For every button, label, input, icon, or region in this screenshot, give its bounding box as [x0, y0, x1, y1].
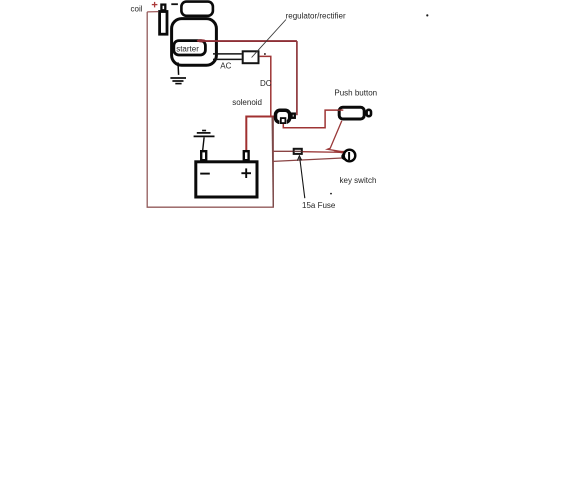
wire to fuse: [273, 150, 293, 152]
regulator/rectifier box: [243, 51, 259, 63]
engine body: [172, 19, 217, 66]
coil L1: [160, 5, 167, 35]
coil polarity +: [152, 2, 158, 8]
wire bottom rail to key switch (diagonal): [273, 158, 345, 162]
fuse pointer arrow: [297, 156, 304, 198]
svg-text:DC: DC: [260, 79, 272, 88]
coil polarity -: [171, 3, 178, 5]
fuel tank: [181, 2, 213, 16]
wire regulator rail down to solenoid tab: [296, 41, 298, 115]
svg-text:Push button: Push button: [334, 88, 377, 97]
wire coil to left rail: [147, 11, 158, 13]
DC plus terminal dot: [264, 53, 266, 55]
key switch S2: [342, 150, 355, 162]
wire AC 1: [213, 53, 242, 55]
battery: [196, 151, 257, 197]
battery ground: [194, 131, 215, 151]
wire AC 2: [213, 58, 242, 60]
wire solenoid to push button: [283, 110, 343, 128]
svg-text:15a Fuse: 15a Fuse: [302, 201, 336, 210]
solenoid: [276, 110, 295, 125]
push button S1: [339, 107, 371, 119]
wire tip into push button: [338, 109, 343, 111]
wire key junction wedge: [334, 151, 346, 154]
wire fuse to key switch: [303, 151, 346, 154]
wire starter output (thick red top): [197, 39, 297, 42]
svg-text:coil: coil: [131, 4, 143, 13]
svg-text:regulator/rectifier: regulator/rectifier: [286, 12, 346, 21]
wire DC output: [260, 56, 271, 116]
fuse F1: [294, 149, 302, 154]
wire battery plus to solenoid: [246, 117, 274, 151]
wire junction down to fuse and bottom rail: [272, 117, 273, 207]
starter: [174, 41, 206, 55]
wire left rail (battery negative loop): [147, 12, 273, 207]
engine ground: [170, 62, 186, 83]
dot below key switch: [330, 193, 332, 195]
svg-text:starter: starter: [176, 44, 199, 53]
svg-text:AC: AC: [220, 62, 231, 71]
leader line to regulator label: [252, 20, 286, 58]
dot top right: [426, 14, 428, 16]
svg-text:solenoid: solenoid: [232, 98, 262, 107]
wire push button down to key junction: [327, 121, 346, 153]
svg-text:key switch: key switch: [340, 176, 377, 185]
